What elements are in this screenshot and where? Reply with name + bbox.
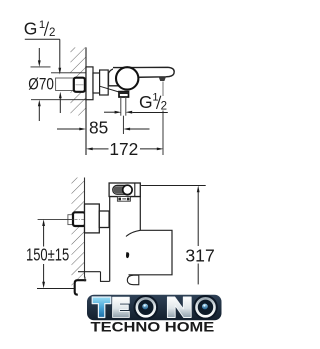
svg-text:317: 317 [185, 246, 214, 266]
svg-text:2: 2 [49, 27, 55, 39]
svg-text:1: 1 [39, 19, 45, 31]
svg-text:172: 172 [109, 139, 138, 159]
svg-text:Ø70: Ø70 [28, 75, 54, 94]
svg-text:G: G [24, 19, 38, 39]
svg-text:1: 1 [152, 91, 158, 103]
svg-text:150±15: 150±15 [26, 246, 69, 265]
svg-text:G: G [139, 92, 153, 112]
svg-text:2: 2 [161, 101, 167, 113]
svg-text:85: 85 [89, 117, 108, 137]
svg-text:TECHNO HOME: TECHNO HOME [91, 320, 215, 335]
